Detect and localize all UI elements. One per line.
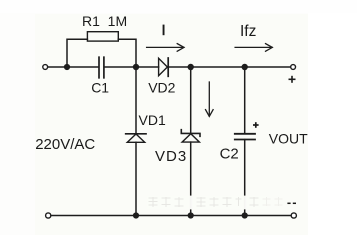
wire VD3 branch upper xyxy=(190,67,192,133)
plus sign C2 polarity xyxy=(253,122,259,128)
junction dot G bottom C2 xyxy=(242,212,248,218)
svg-text:C2: C2 xyxy=(220,145,239,162)
svg-text:VD2: VD2 xyxy=(148,79,175,95)
diode VD2 triangle xyxy=(159,58,168,75)
svg-text:R1 1M: R1 1M xyxy=(82,13,127,29)
svg-text:220V/AC: 220V/AC xyxy=(35,136,95,153)
zener VD3 cathode bar with hooks xyxy=(181,130,200,137)
wire top rail right: VD2 cathode to + terminal xyxy=(168,66,291,68)
wire VD1 branch lower xyxy=(135,142,137,215)
svg-text:Ifz: Ifz xyxy=(240,23,256,40)
wire C2 branch lower xyxy=(244,140,246,216)
resistor R1 body xyxy=(87,32,118,41)
diode VD2 cathode bar xyxy=(167,58,169,76)
label current I xyxy=(163,25,165,36)
wire VD1 branch upper xyxy=(135,67,137,134)
arrow current I xyxy=(147,44,184,52)
capacitor C1 left plate xyxy=(98,57,100,78)
junction dot F bottom VD3 xyxy=(188,212,194,218)
plus sign output terminal xyxy=(289,76,296,83)
wire bottom rail xyxy=(51,215,291,217)
watermark wire whiteout VD3 xyxy=(189,196,192,209)
svg-text:VD3: VD3 xyxy=(155,148,187,165)
terminal bottom-left xyxy=(46,213,51,218)
capacitor C2 top plate xyxy=(235,133,255,135)
terminal top-right xyxy=(291,65,296,70)
wire R1 left branch up xyxy=(67,39,87,67)
wire C2 branch upper xyxy=(244,67,246,134)
watermark overlay band xyxy=(147,196,267,210)
svg-text:C1: C1 xyxy=(91,79,109,95)
junction dot E bottom VD1 xyxy=(133,212,139,218)
diode VD1 cathode bar xyxy=(126,133,146,135)
diode VD1 triangle xyxy=(127,134,144,142)
junction dot C xyxy=(188,64,194,70)
watermark glyphs xyxy=(149,197,259,207)
terminal bottom-right xyxy=(291,213,296,218)
junction dot B xyxy=(133,64,139,70)
junction dot A xyxy=(64,64,70,70)
arrow current Ifz xyxy=(235,44,272,52)
wire VD3 branch lower xyxy=(190,142,192,215)
capacitor C2 bottom plate xyxy=(235,139,255,141)
svg-text:VD1: VD1 xyxy=(139,112,166,128)
wire top rail left: terminal to C1 left plate xyxy=(48,66,99,68)
wire R1 right branch down xyxy=(118,39,136,67)
junction dot D xyxy=(242,64,248,70)
svg-text:VOUT: VOUT xyxy=(269,131,308,147)
minus sign output terminal xyxy=(287,202,296,204)
watermark wire whiteout C2 xyxy=(243,196,246,209)
terminal top-left xyxy=(43,65,48,70)
wire top rail: C1 right plate to VD2 anode xyxy=(105,66,159,68)
zener VD3 triangle xyxy=(182,134,199,142)
arrow zener current down xyxy=(206,82,214,116)
capacitor C1 right plate xyxy=(103,57,105,78)
